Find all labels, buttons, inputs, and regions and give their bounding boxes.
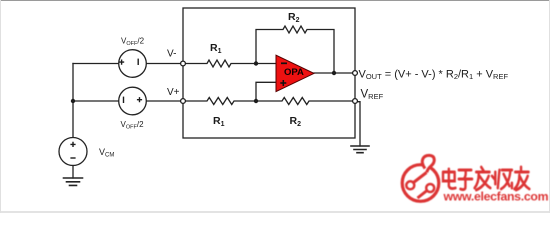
svg-text:www.elecfans.com: www.elecfans.com (443, 189, 549, 203)
